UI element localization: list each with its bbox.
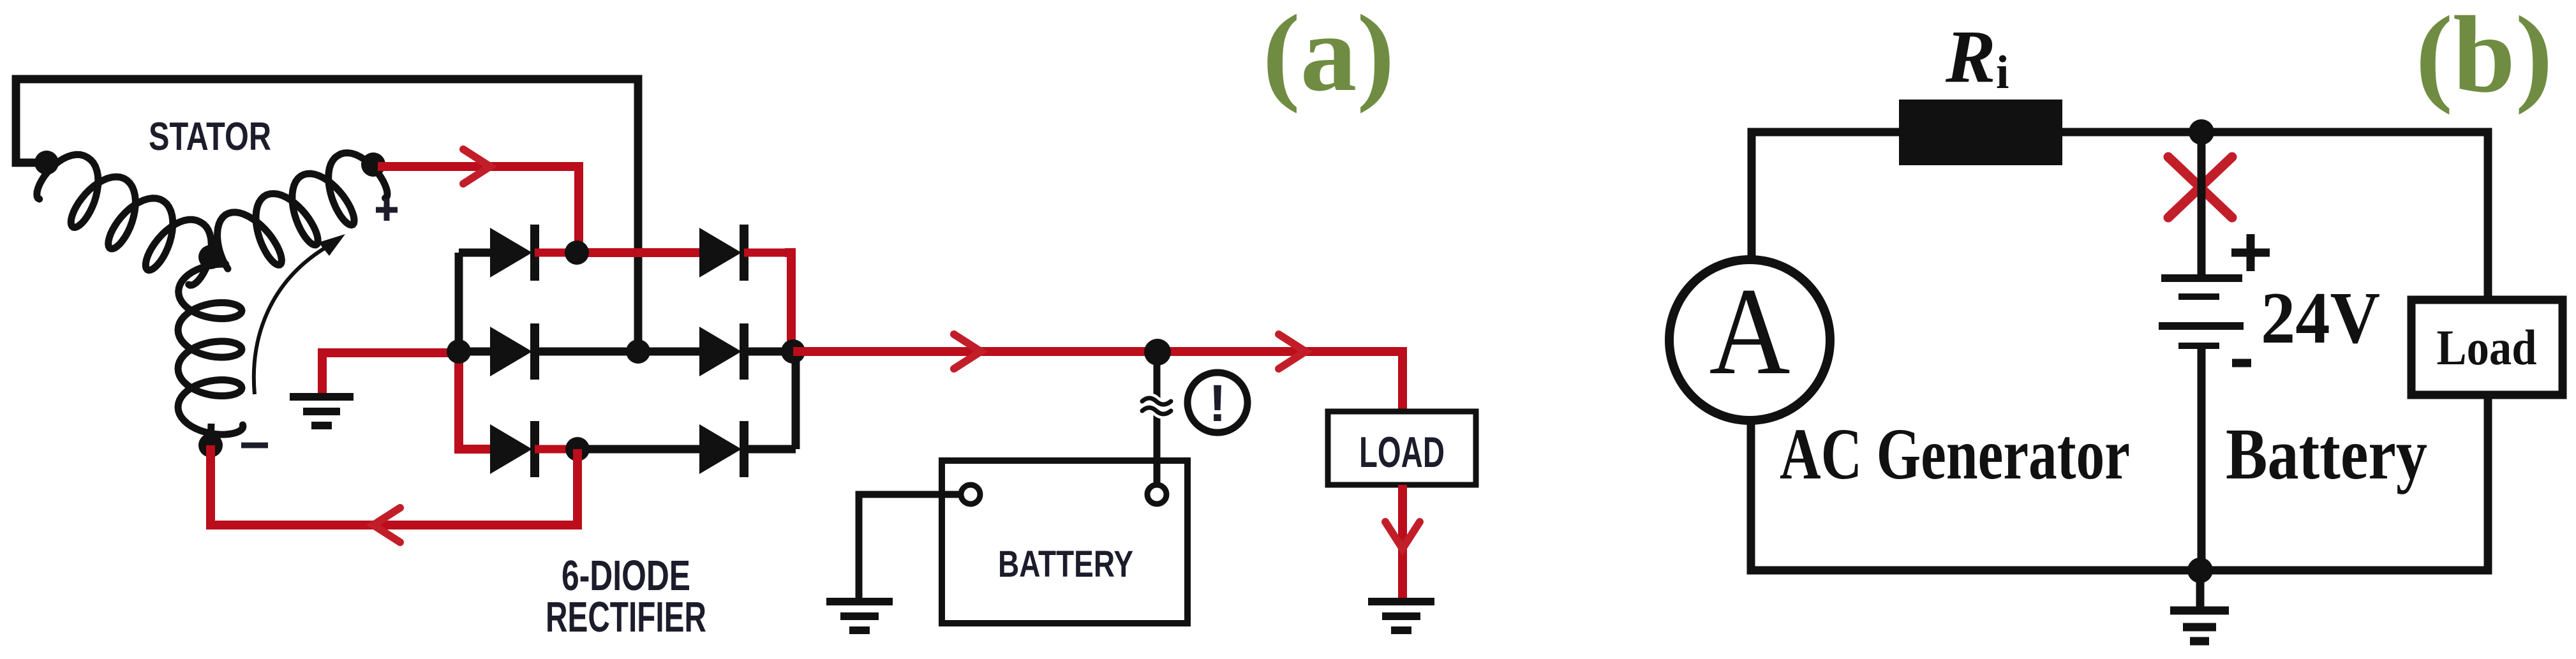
label plus	[376, 199, 398, 221]
ground G4 (panel b)	[2170, 570, 2229, 641]
current arrowhead return	[373, 508, 400, 542]
node: center tap mid	[626, 339, 650, 364]
label minus	[241, 443, 268, 448]
node: stator plus terminal	[361, 152, 385, 177]
diode D1 (top-left)	[459, 225, 577, 281]
battery negative terminal	[961, 485, 980, 504]
node: left rail mid	[447, 339, 471, 364]
wire (red): bottom return to stator minus	[211, 445, 577, 525]
panel label (b)	[2416, 0, 2553, 115]
wire: battery bottom lead (panel b)	[2198, 346, 2206, 570]
label LOAD	[1359, 428, 1445, 477]
svg-text:A: A	[1709, 262, 1791, 401]
svg-text:24V: 24V	[2261, 278, 2380, 359]
label 24V	[2261, 278, 2380, 359]
battery B2 plates	[2159, 278, 2244, 346]
label 6-DIODE RECTIFIER	[546, 552, 706, 641]
label STATOR	[149, 115, 271, 159]
svg-text:BATTERY: BATTERY	[998, 544, 1133, 585]
wire (black): bottom-right riser	[792, 352, 800, 449]
current arrowhead to load	[1279, 334, 1306, 369]
svg-text:Battery: Battery	[2226, 413, 2427, 494]
resistor Ri	[1899, 100, 2062, 165]
stator coil L3	[178, 258, 243, 445]
label BATTERY	[998, 544, 1133, 585]
wire (red): main output line	[793, 352, 1403, 414]
svg-text:RECTIFIER: RECTIFIER	[546, 593, 706, 641]
wire (black): battery branch upper	[1154, 352, 1161, 485]
svg-text:LOAD: LOAD	[1359, 428, 1445, 477]
node: battery tap top (panel b)	[2189, 119, 2214, 145]
wire (red): top row to right column	[577, 248, 699, 257]
node: battery tap	[1144, 339, 1171, 366]
wire (red): ground riser to rectifier mid row	[322, 353, 459, 393]
ground G2 (battery)	[826, 602, 893, 630]
current arrowhead mid	[954, 334, 981, 369]
svg-text:(a): (a)	[1263, 0, 1395, 114]
red X (open circuit)	[2168, 157, 2232, 218]
label Battery	[2226, 413, 2427, 494]
label minus (panel b)	[2232, 359, 2251, 367]
node: rectifier output	[781, 339, 805, 364]
svg-text:Load: Load	[2437, 320, 2537, 375]
ammeter A	[1669, 260, 1830, 420]
battery positive terminal	[1147, 485, 1166, 504]
battery box	[942, 461, 1187, 623]
wire (red): rectifier left rail lower	[459, 352, 494, 449]
node: ground tap bottom (panel b)	[2187, 558, 2213, 583]
wire (red): load to ground	[1398, 485, 1407, 600]
diode D5 (mid-right)	[638, 323, 793, 380]
rotation arrow	[254, 234, 345, 394]
svg-text:R: R	[1945, 15, 1996, 98]
panel label (a)	[1263, 0, 1395, 114]
svg-text:AC Generator: AC Generator	[1780, 413, 2130, 494]
node: stator phase-1 terminal	[34, 151, 59, 175]
wire (black): rectifier left rail upper	[455, 253, 463, 352]
wire (red): top-right drop to output node	[785, 253, 791, 350]
wire (red): plus terminal to rectifier top row	[378, 167, 579, 253]
stator coil L1	[37, 154, 211, 285]
svg-text:!: !	[1209, 374, 1226, 433]
break symbol (open connection)	[1142, 398, 1171, 414]
stator coil L2	[218, 153, 387, 269]
load box (panel a)	[1328, 411, 1476, 485]
node: D1 cathode	[565, 241, 589, 265]
label AC Generator	[1780, 413, 2130, 494]
current arrowhead into rectifier	[463, 149, 490, 184]
diode D6 (bottom-right)	[577, 421, 796, 477]
ground G3 (load)	[1368, 602, 1434, 630]
diode D4 (top-right)	[664, 225, 787, 281]
svg-text:i: i	[1996, 47, 2009, 99]
label Ri	[1945, 15, 2009, 99]
warning circle	[1187, 373, 1247, 433]
label Load	[2437, 320, 2537, 375]
wire: stator phase-1 terminal loop to rectifier center tap	[16, 79, 638, 352]
diode D3 (bottom-left)	[459, 421, 577, 477]
node: stator neutral	[198, 245, 223, 269]
load box (panel b)	[2411, 300, 2563, 395]
svg-text:STATOR: STATOR	[149, 115, 271, 159]
svg-text:(b): (b)	[2416, 0, 2553, 115]
wire: panel b outer loop	[1751, 132, 2488, 570]
svg-text:6-DIODE: 6-DIODE	[562, 552, 690, 600]
wire (black): battery negative to ground	[859, 494, 961, 598]
node: stator minus terminal	[198, 433, 223, 457]
node: D3 cathode	[565, 437, 590, 461]
label plus (panel b)	[2231, 234, 2270, 271]
wire: battery top lead (panel b)	[2198, 132, 2206, 277]
diode D2 (mid-left)	[459, 323, 638, 380]
current arrowhead to ground	[1385, 522, 1420, 549]
ground G1 (stator)	[290, 397, 354, 426]
